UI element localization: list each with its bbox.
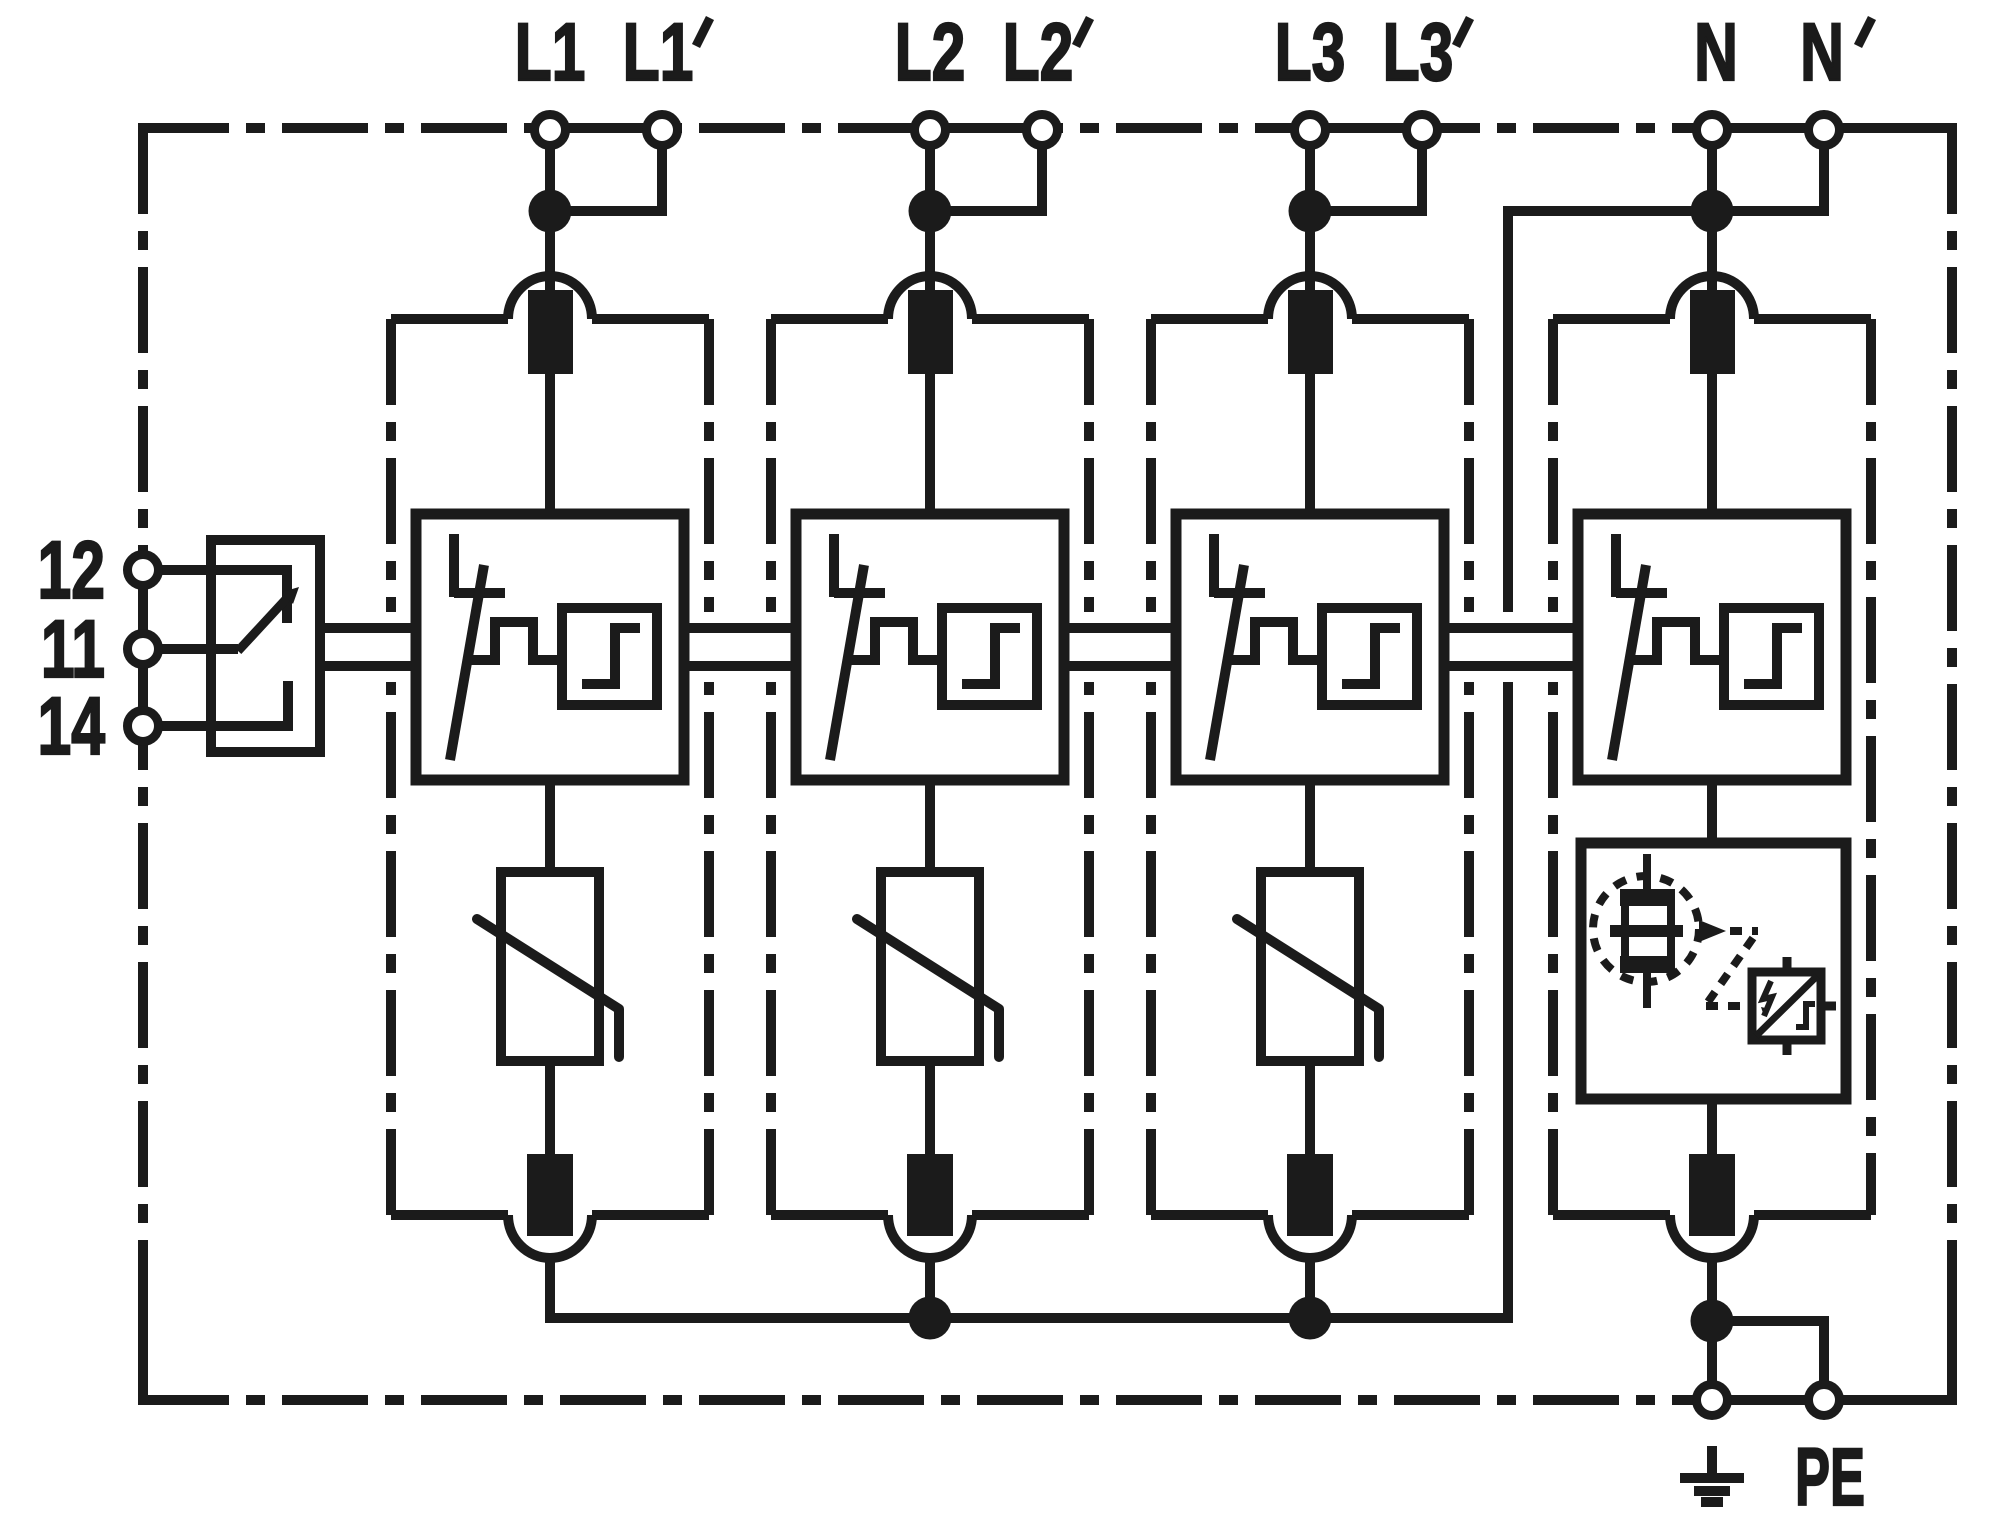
terminal 11 (128, 634, 159, 665)
module L1 box right edge (dash-dot) (704, 319, 714, 1215)
linkage bus segment 4 upper line (1444, 623, 1578, 633)
spark gap unit L2 switching element box (942, 608, 1037, 705)
varistor L1 diagonal stroke (477, 919, 619, 1057)
linkage bus segment 2 upper line (684, 623, 796, 633)
wire L3 bottom drop (1305, 1258, 1315, 1318)
trigger electronics lightning symbol (1763, 981, 1772, 1016)
wire L1 terminal drop (545, 130, 555, 211)
trigger dashed link bottom run (1706, 1002, 1748, 1010)
terminal PE' (1809, 1385, 1840, 1416)
svg-text:L2: L2 (895, 7, 966, 98)
spark gap unit L3 electrode stem (1209, 534, 1219, 597)
linkage bus segment 1 upper line (320, 623, 416, 633)
wire border segment L2-L2' (930, 123, 1042, 133)
wire N-PE gap unit to bottom disconnector (1707, 1099, 1717, 1154)
wire border segment 12-11-14 (138, 570, 148, 726)
wire terminal 11 lead (143, 644, 238, 654)
wire N bottom drop to terminal PE (1707, 1258, 1717, 1400)
terminal L2 (915, 115, 946, 146)
spark gap unit N switching element step symbol (1744, 628, 1802, 684)
spark gap unit N electrode stem (1611, 534, 1621, 597)
wire terminal 12 lead (143, 570, 287, 623)
node L1 junction dot (529, 190, 572, 233)
enclosure border corner bottom-left (143, 1326, 217, 1400)
wire N terminal drop (1707, 130, 1717, 211)
label L1' prime mark (696, 18, 710, 46)
N-PE summation spark gap unit box (1581, 843, 1846, 1099)
wire spark gap N to N-PE gap unit (1707, 780, 1717, 843)
trigger electronics box (1752, 972, 1821, 1040)
trigger dashed link diagonal run (1708, 938, 1753, 1002)
svg-text:L1: L1 (515, 7, 586, 98)
trigger arrow (1699, 920, 1726, 942)
varistor L1 body (501, 872, 599, 1061)
wire border segment N-N' (1712, 123, 1824, 133)
disconnector N bottom arc (1670, 1215, 1754, 1258)
wire border segment PE-PE' (1712, 1395, 1824, 1405)
spark gap unit L1 electrode stem (449, 534, 459, 597)
svg-text:N: N (1800, 7, 1844, 98)
enclosure border left (dash-dot) (138, 128, 148, 1400)
disconnector L3 top arc (1268, 276, 1352, 319)
spark gap unit N switching element box (1724, 608, 1819, 705)
varistor L2 body (881, 872, 979, 1061)
terminal PE (1697, 1385, 1728, 1416)
enclosure border bottom (dash-dot) (143, 1395, 1952, 1405)
spark gap unit L2 electrode stem (829, 534, 839, 597)
node L2-bus junction dot (909, 1297, 952, 1340)
module L2 box top edge (771, 314, 1089, 324)
svg-text:N: N (1694, 7, 1738, 98)
wire disconnector L2 to spark gap unit (925, 374, 935, 514)
wire L3 terminal drop (1305, 130, 1315, 211)
ground symbol (1680, 1446, 1744, 1502)
spark gap unit L3 box (1176, 514, 1444, 780)
terminal L2' (1027, 115, 1058, 146)
disconnector L2 top fuse element (908, 290, 953, 374)
enclosure border right (dash-dot) (1947, 128, 1957, 1400)
varistor L3 diagonal stroke (1237, 919, 1379, 1057)
spark gap unit L3 electrode bar (1214, 588, 1265, 598)
svg-text:L3: L3 (1383, 7, 1454, 98)
svg-text:PE: PE (1795, 1431, 1865, 1520)
trigger electronics box stubs (1787, 957, 1836, 1055)
varistor L3 body (1261, 872, 1359, 1061)
wire spark gap L2 to varistor (925, 780, 935, 872)
wire border segment L1-L1' (550, 123, 662, 133)
disconnector L1 top fuse element (528, 290, 573, 374)
wire disconnector N to spark gap unit (1707, 374, 1717, 514)
N-PE gas discharge gap insulator walls (1625, 906, 1671, 956)
N-PE gas discharge gap middle band (1610, 925, 1683, 937)
node N junction dot (1691, 190, 1734, 233)
spark gap unit N box (1578, 514, 1846, 780)
wire node N to PE-bus riser upper run (1508, 211, 1712, 612)
node PE junction dot (1691, 1300, 1734, 1343)
spark gap unit L2 disconnect blade (830, 565, 864, 760)
wire varistor L2 to bottom disconnector (925, 1061, 935, 1154)
linkage bus segment 3 lower line (1064, 661, 1176, 671)
module L2 box bottom edge (771, 1210, 1089, 1220)
linkage bus segment 2 lower line (684, 661, 796, 671)
module L1 box left edge (dash-dot) (386, 319, 396, 1215)
spark gap unit L3 disconnect blade (1210, 565, 1244, 760)
trigger electronics lightning arrowhead (1761, 1007, 1770, 1016)
spark gap unit L1 control step link (467, 622, 562, 660)
disconnector N top fuse element (1690, 290, 1735, 374)
spark gap unit N electrode bar (1616, 588, 1667, 598)
spark gap unit L2 switching element step symbol (962, 628, 1020, 684)
spark gap unit L1 switching element step symbol (582, 628, 640, 684)
disconnector L3 top fuse element (1288, 290, 1333, 374)
spark gap unit L1 switching element box (562, 608, 657, 705)
enclosure border corner top-right (1878, 128, 1952, 202)
wire varistor L3 to bottom disconnector (1305, 1061, 1315, 1154)
enclosure border corner top-left (143, 128, 217, 202)
module N box left edge (dash-dot) (1548, 319, 1558, 1215)
enclosure border top (dash-dot) (143, 123, 1952, 133)
N-PE gas discharge gap top electrode (1620, 889, 1675, 906)
remote contact moving arm (238, 598, 287, 651)
wire disconnector L3 to spark gap unit (1305, 374, 1315, 514)
module L3 box bottom edge (1151, 1210, 1469, 1220)
wire terminal 14 lead (143, 681, 288, 726)
terminal N (1697, 115, 1728, 146)
disconnector L3 bottom arc (1268, 1215, 1352, 1258)
spark gap unit L3 switching element step symbol (1342, 628, 1400, 684)
label N' prime mark (1858, 18, 1872, 46)
svg-text:L3: L3 (1275, 7, 1346, 98)
wire L2 terminal drop (925, 130, 935, 211)
svg-text:L2: L2 (1003, 7, 1074, 98)
module L2 box right edge (dash-dot) (1084, 319, 1094, 1215)
remote contact box (211, 540, 320, 752)
label L2' prime mark (1076, 18, 1090, 46)
module N box top edge (1553, 314, 1871, 324)
svg-text:12: 12 (38, 525, 105, 616)
remote contact arm arrowhead (282, 587, 299, 604)
N-PE gas discharge gap top lead (1643, 854, 1651, 891)
terminal L3 (1295, 115, 1326, 146)
node L3 junction dot (1289, 190, 1332, 233)
disconnector L2 bottom fuse element (907, 1154, 953, 1236)
wire N' terminal drop to node N (1712, 130, 1824, 211)
disconnector L2 bottom arc (888, 1215, 972, 1258)
disconnector L3 bottom fuse element (1287, 1154, 1333, 1236)
linkage bus segment 4 lower line (1444, 661, 1578, 671)
wire node L2 to disconnector (925, 211, 935, 295)
N-PE gas discharge gap bottom lead (1643, 973, 1651, 1008)
terminal N' (1809, 115, 1840, 146)
module L2 box left edge (dash-dot) (766, 319, 776, 1215)
node L3-bus junction dot (1289, 1297, 1332, 1340)
disconnector N bottom fuse element (1689, 1154, 1735, 1236)
trigger dashed link top run (1730, 927, 1758, 935)
disconnector L2 top arc (888, 276, 972, 319)
module L3 box top edge (1151, 314, 1469, 324)
spark gap unit L3 switching element box (1322, 608, 1417, 705)
linkage bus segment 1 lower line (320, 661, 416, 671)
wire node N to disconnector (1707, 211, 1717, 295)
terminal L3' (1407, 115, 1438, 146)
terminal 14 (128, 711, 159, 742)
wire spark gap L1 to varistor (545, 780, 555, 872)
wire L1' terminal drop to node L1 (550, 130, 662, 211)
spark gap unit N disconnect blade (1612, 565, 1646, 760)
wire node L1 to disconnector (545, 211, 555, 295)
disconnector L1 top arc (508, 276, 592, 319)
enclosure border corner bottom-right (1878, 1326, 1952, 1400)
wire L2 bottom drop (925, 1258, 935, 1318)
wire varistor L1 to bottom disconnector (545, 1061, 555, 1154)
wire PE' branch (1712, 1321, 1824, 1400)
spark gap unit L1 electrode bar (454, 588, 505, 598)
module N box right edge (dash-dot) (1866, 319, 1876, 1215)
terminal 12 (128, 555, 159, 586)
spark gap unit L2 box (796, 514, 1064, 780)
spark gap unit L1 disconnect blade (450, 565, 484, 760)
svg-text:L1: L1 (623, 7, 694, 98)
spark gap unit L1 box (416, 514, 684, 780)
wire disconnector L1 to spark gap unit (545, 374, 555, 514)
N-PE gap dashed encapsulation circle (1593, 876, 1699, 982)
wire border segment PE' to corner (1824, 1395, 1952, 1405)
svg-text:14: 14 (38, 681, 105, 772)
trigger electronics step symbol (1796, 1004, 1815, 1027)
wire border segment L3-L3' (1310, 123, 1422, 133)
label L3' prime mark (1456, 18, 1470, 46)
wire spark gap L3 to varistor (1305, 780, 1315, 872)
wire L1 bottom drop and equipotential bus (550, 682, 1508, 1318)
terminal L1 (535, 115, 566, 146)
module L1 box top edge (391, 314, 709, 324)
disconnector L1 bottom arc (508, 1215, 592, 1258)
N-PE gas discharge gap bottom electrode (1620, 956, 1675, 973)
terminal L1' (647, 115, 678, 146)
spark gap unit N control step link (1629, 622, 1724, 660)
spark gap unit L3 control step link (1227, 622, 1322, 660)
node L2 junction dot (909, 190, 952, 233)
wire node L3 to disconnector (1305, 211, 1315, 295)
wire L3' terminal drop to node L3 (1310, 130, 1422, 211)
spark gap unit L2 electrode bar (834, 588, 885, 598)
linkage bus segment 3 upper line (1064, 623, 1176, 633)
varistor L2 diagonal stroke (857, 919, 999, 1057)
disconnector N top arc (1670, 276, 1754, 319)
module N box bottom edge (1553, 1210, 1871, 1220)
spark gap unit L2 control step link (847, 622, 942, 660)
disconnector L1 bottom fuse element (527, 1154, 573, 1236)
module L1 box bottom edge (391, 1210, 709, 1220)
module L3 box right edge (dash-dot) (1464, 319, 1474, 1215)
module L3 box left edge (dash-dot) (1146, 319, 1156, 1215)
trigger electronics diagonal (1756, 976, 1817, 1036)
wire L2' terminal drop to node L2 (930, 130, 1042, 211)
